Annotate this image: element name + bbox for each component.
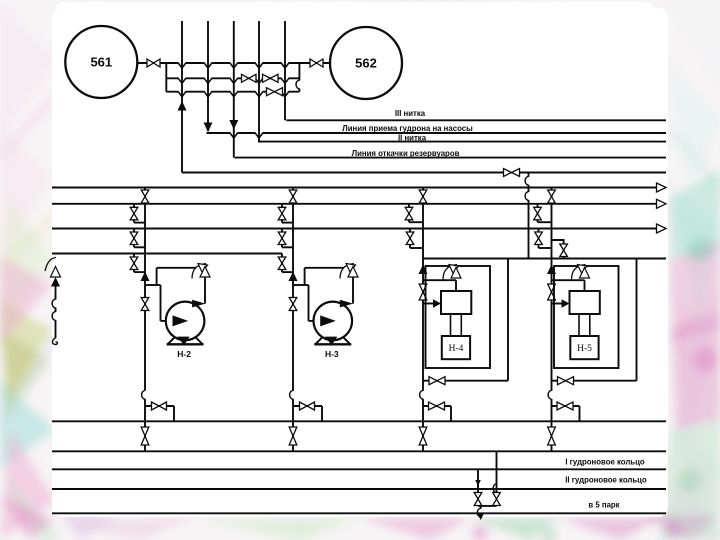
pipe: H-2 suction line	[161, 320, 181, 322]
svg-text:562: 562	[355, 56, 377, 71]
valve at tank 562	[310, 59, 323, 67]
svg-text:Линия приема гудрона на насосы: Линия приема гудрона на насосы	[342, 124, 473, 133]
valve on H-5 header3 jog	[535, 232, 543, 245]
vent arrow H-3	[340, 264, 358, 279]
pipe: II гудроновое кольцо ring main	[52, 468, 666, 470]
vent arrow H-4	[443, 265, 461, 280]
svg-text:561: 561	[90, 55, 112, 70]
pipe: H-3 discharge branch	[293, 405, 322, 407]
valve on H-4 header2 jog	[405, 207, 413, 220]
flow arrow up into unit H-5	[547, 265, 556, 275]
pipe: H-4 header3 jog	[409, 229, 411, 249]
hop: riser x285 over manifold 2	[281, 77, 289, 84]
cropped pump H-1 vent arrow	[45, 258, 61, 278]
flow arrow up riser 1	[178, 101, 187, 111]
hop: riser over suction line	[255, 131, 263, 138]
valve on H-4 header3 jog	[406, 232, 414, 245]
pipe: return header	[182, 172, 666, 174]
pipe: H-5 header3 jog	[538, 229, 540, 249]
pipe: discharge collector	[52, 420, 666, 422]
pipe: tank riser 4	[258, 21, 260, 142]
pipe: H-2 header2 jog	[133, 204, 135, 223]
valve on H-5 lower branch	[557, 402, 573, 410]
pipe: H-3 header4 jog	[281, 254, 283, 273]
pipe: H-5 lower branch drop	[579, 406, 581, 421]
hop: riser x208 over manifold 2	[204, 77, 212, 84]
svg-text:Н-5: Н-5	[577, 344, 592, 354]
pipe: H-5 lower branch	[552, 405, 580, 407]
pipe: H-2 discharge branch	[145, 405, 174, 407]
pipe: H-3 header3 jog	[281, 229, 283, 248]
pipe: H-4 header3 jog return	[410, 247, 423, 249]
hop: riser x182 over manifold 3	[178, 90, 186, 97]
valve on H-3 header4 jog	[278, 257, 286, 270]
valve on H-2 discharge branch	[152, 402, 167, 410]
valve H-4 header1-2	[419, 190, 427, 203]
pipe: H-3 header2 jog	[281, 204, 283, 223]
H-1 riser curl	[53, 338, 58, 345]
svg-text:III нитка: III нитка	[395, 109, 426, 118]
valve on return header	[504, 169, 520, 177]
hop over park line	[477, 508, 482, 517]
pipe: H-3 suction line	[309, 320, 328, 322]
flow arrow park transfer	[475, 480, 481, 486]
unit H-5 shaft left	[578, 314, 580, 336]
pipe: H-4/H-5 supply header	[423, 258, 666, 260]
pipe: H-5 bypass bottom	[552, 380, 637, 382]
hop: riser x233.8 over manifold 3	[230, 90, 238, 97]
svg-text:II гудроновое кольцо: II гудроновое кольцо	[565, 476, 647, 485]
pipe: unit H-5 main	[551, 188, 553, 452]
valve on H-4 main	[419, 284, 427, 300]
pipe: suction header 3	[52, 228, 657, 230]
pipe: III нитка line	[286, 119, 666, 121]
pipe: H-4 vent line	[423, 279, 456, 281]
pipe: H-5 header3 jog return	[539, 247, 552, 249]
hop: riser x259 over manifold 3	[255, 90, 263, 97]
pipe: H-4 bypass bottom	[423, 380, 508, 382]
svg-text:II нитка: II нитка	[398, 134, 427, 143]
pipe: tank riser 5	[284, 21, 286, 120]
unit H-5 enclosure	[554, 266, 619, 368]
hop over ring main 2	[493, 484, 498, 493]
vent arrow H-5	[572, 265, 590, 280]
flow arrow up into unit H-4	[419, 265, 428, 275]
hop on manifold right drop	[296, 80, 301, 89]
pipe: H-5 right jog	[552, 240, 564, 259]
pipe: H-2 discharge drop	[173, 406, 175, 421]
pipe: H-5 bypass	[636, 259, 638, 381]
valve on H-5 header2 jog	[534, 207, 542, 220]
flow arrow down riser 2	[204, 123, 213, 133]
valve park transfer right	[493, 493, 501, 506]
pipe: H-2 discharge riser	[204, 277, 206, 304]
pipe: H-3 header4 jog return	[282, 271, 293, 273]
svg-text:в 5 парк: в 5 парк	[588, 500, 619, 509]
valve H-4 to ring main	[419, 427, 427, 445]
svg-text:I гудроновое кольцо: I гудроновое кольцо	[565, 458, 645, 467]
valve on H-2 header3 jog	[130, 232, 138, 245]
pipe: H-3 vent line	[305, 267, 344, 269]
valve on manifold 2 (left)	[242, 74, 257, 82]
pipe: H-2 header3 jog	[133, 229, 135, 248]
valve on H-3 header2 jog	[278, 207, 286, 220]
valve on manifold 3	[267, 88, 283, 96]
pipe: H-5 header2 jog return	[538, 221, 552, 223]
unit H-5 shaft right	[589, 314, 591, 336]
pipe: H-3 suction branch	[293, 284, 309, 286]
valve on H-3 header3 jog	[278, 232, 286, 245]
hop: riser over suction line	[230, 131, 238, 138]
valve H-3 to ring main	[289, 427, 297, 445]
pipe: manifold line 3	[166, 91, 299, 93]
pipe: suction header 4	[52, 253, 282, 255]
hop on H-3 main	[290, 390, 295, 399]
pipe: pump H-2 main	[144, 188, 146, 452]
pipe: H-2 header4 jog	[133, 254, 135, 273]
pipe: H-2 suction drop	[160, 285, 162, 321]
valve H-3 header1-2	[289, 190, 297, 203]
valve on H-4 bypass	[429, 377, 445, 385]
pipe: park transfer drop 2	[496, 483, 498, 493]
tank 561	[65, 26, 137, 98]
valve on H-5 bypass	[558, 377, 574, 385]
pipe: H-2 vent drop	[156, 268, 158, 285]
pipe: suction header 2	[52, 203, 657, 205]
pipe: H-4 lower branch	[423, 405, 451, 407]
hop on H-2 main	[142, 390, 147, 399]
hop: riser x208 over manifold 3	[204, 90, 212, 97]
valve on H-2 header2 jog	[130, 207, 138, 220]
pipe: tank riser 3	[233, 21, 235, 158]
unit H-4 shaft right	[460, 314, 462, 336]
unit H-4 upper box	[441, 291, 471, 314]
pipe: park transfer link	[478, 505, 497, 507]
pipe: unit H-4 main	[422, 188, 424, 452]
pipe: manifold left drop	[165, 63, 167, 92]
pipe: H-4 header2 jog return	[409, 221, 423, 223]
unit H-5 upper box	[570, 291, 600, 314]
valve park transfer left	[474, 493, 482, 506]
pipe: H-5 vent drop to box	[584, 280, 586, 291]
valve on H-5 right jog	[560, 244, 568, 257]
pipe: manifold line 2	[166, 77, 299, 79]
svg-text:Линия откачки резервуаров: Линия откачки резервуаров	[352, 149, 460, 158]
pipe: линия откачки резервуаров	[235, 157, 667, 159]
pipe: H-4 feed	[423, 303, 434, 305]
valve on manifold 2 (right)	[263, 74, 279, 82]
valve H-2 header1-2	[141, 190, 149, 203]
valve on H-3 discharge branch	[300, 402, 315, 410]
vent arrow H-2	[192, 264, 210, 279]
svg-text:Н-3: Н-3	[325, 349, 339, 359]
valve H-2 to ring main	[141, 427, 149, 445]
pipe: H-3 discharge drop	[321, 406, 323, 421]
svg-text:Н-2: Н-2	[177, 349, 191, 359]
pipe: tank riser 2	[207, 21, 209, 131]
pipe: drop to park 5	[480, 506, 482, 518]
pipe: H-5 feed	[552, 303, 563, 305]
pipe: ring main 2	[52, 488, 666, 490]
valve on H-2 header4 jog	[130, 257, 138, 270]
hop on H-1 riser	[52, 299, 57, 308]
hop: riser x182 over transfer line	[178, 61, 186, 68]
pipe: tank transfer line 561-562	[138, 62, 331, 64]
pipe: H-3 header3 jog return	[282, 246, 293, 248]
hop: riser x285 over manifold 3	[281, 90, 289, 97]
pipe: H-3 suction drop	[308, 285, 310, 321]
pipe: II нитка line	[258, 141, 666, 143]
pipe: H-4 header2 jog	[408, 204, 410, 222]
valve at tank 561	[147, 59, 160, 67]
hop: riser x182 over manifold 2	[178, 77, 186, 84]
tank 562	[330, 27, 402, 99]
unit H-4 motor box	[442, 336, 470, 359]
pipe: H-5 left drop	[528, 173, 530, 259]
pipe: suction header 1	[52, 187, 657, 189]
hop: riser x285 over transfer line	[281, 61, 289, 68]
pipe: manifold right drop	[298, 63, 300, 92]
hop: riser x208 over transfer line	[204, 61, 212, 68]
wiggle on H-5 left drop	[525, 176, 530, 185]
hop: riser x233.8 over transfer line	[230, 61, 238, 68]
flow arrow to park 5	[478, 514, 484, 520]
feed arrow into H-5	[562, 299, 570, 307]
hop: riser x259 over manifold 2	[255, 77, 263, 84]
valve on H-3 main	[289, 298, 297, 311]
flow arrow up into pump H-3	[289, 272, 298, 282]
valve on H-5 main	[548, 284, 556, 300]
flow arrow up into pump H-2	[141, 272, 150, 282]
pipe: tank riser 1	[181, 21, 183, 173]
hop on H-5 main	[548, 390, 553, 399]
svg-text:Н-4: Н-4	[449, 344, 464, 354]
hop on H-4 main	[420, 390, 425, 399]
pipe: H-3 header2 jog return	[282, 222, 293, 224]
pipe: park transfer left drop	[477, 469, 479, 492]
hop: riser x233.8 over manifold 2	[230, 77, 238, 84]
pipe: I гудроновое кольцо	[52, 450, 666, 452]
pipe: линия приема гудрона на насосы	[207, 132, 667, 134]
pipe: line to park 5	[52, 512, 666, 514]
pipe: H-2 header2 jog return	[134, 222, 145, 224]
wiggle on H-5 left drop 2	[525, 192, 530, 201]
valve on H-2 main	[141, 298, 149, 311]
pipe: H-5 vent line	[552, 279, 585, 281]
pipe: pump H-3 main	[292, 188, 294, 452]
pipe: H-4 vent drop to box	[455, 280, 457, 291]
pipe: H-3 discharge riser	[352, 277, 354, 304]
flow arrow on H-1 riser	[51, 277, 60, 287]
unit H-5 motor box	[570, 336, 598, 359]
pipe: H-2 vent line	[157, 267, 196, 269]
pipe: H-2 header4 jog return	[134, 271, 145, 273]
unit H-4 shaft left	[450, 314, 452, 336]
flow arrow down riser 3	[229, 120, 238, 130]
pipe: H-1 riser	[55, 285, 57, 338]
arrow: header 1 continues	[657, 183, 667, 192]
pipe: H-5 header2 jog	[537, 204, 539, 222]
unit H-4 enclosure	[426, 266, 491, 368]
valve H-5 header1-2	[548, 190, 556, 203]
feed arrow into H-4	[433, 299, 441, 307]
pipe: H-2 header3 jog return	[134, 246, 145, 248]
pump H-2	[166, 300, 206, 345]
arrow: header 3 continues	[657, 224, 667, 233]
valve H-5 to ring main	[548, 427, 556, 445]
pipe: H-4 bypass	[507, 259, 509, 381]
pipe: H-4 lower branch drop	[450, 406, 452, 421]
valve on H-4 lower branch	[429, 402, 445, 410]
arrow: header 2 continues	[657, 199, 667, 208]
pipe: park transfer drop	[496, 451, 498, 483]
pipe: H-2 suction branch	[145, 284, 161, 286]
pump H-3	[314, 300, 354, 345]
hop: riser x259 over transfer line	[255, 61, 263, 68]
hop on H-1 riser 2	[52, 312, 57, 321]
pipe: H-3 vent drop	[304, 268, 306, 285]
